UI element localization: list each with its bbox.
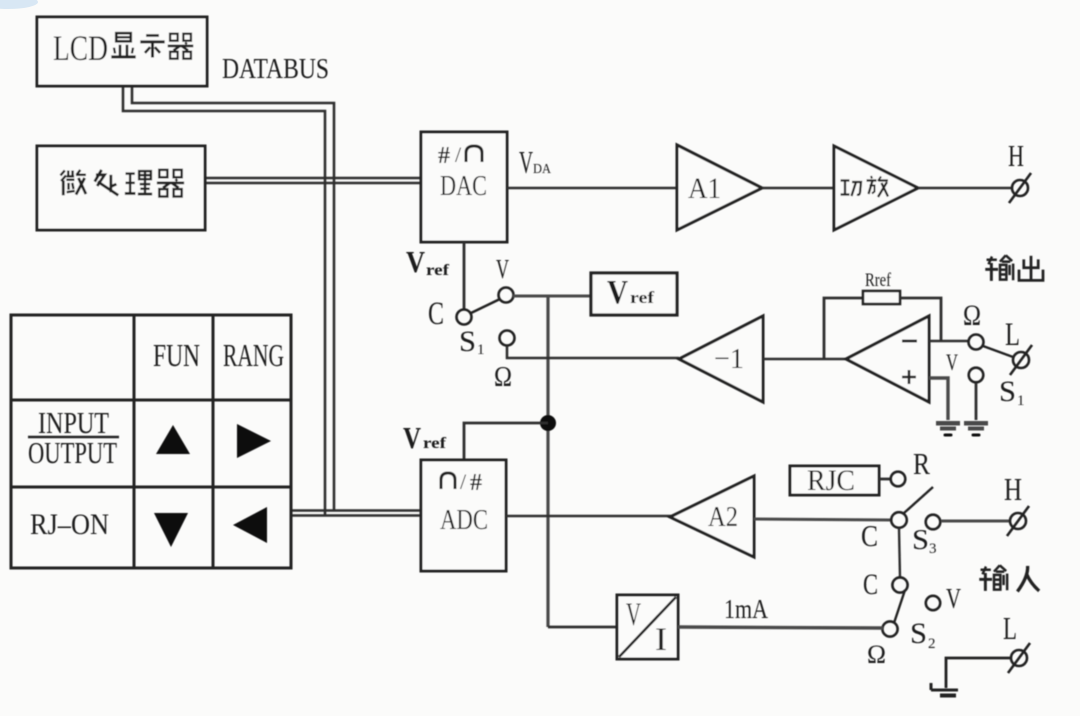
svg-text:RJ–ON: RJ–ON	[30, 508, 109, 541]
amplifier A2	[670, 476, 754, 557]
svg-text:V: V	[626, 597, 641, 633]
svg-text:RANG: RANG	[223, 337, 284, 373]
svg-text:L: L	[1003, 610, 1017, 646]
wire L input to ground	[946, 658, 1010, 688]
switch S2 contact V	[926, 596, 940, 610]
svg-text:C: C	[428, 296, 444, 332]
svg-text:ADC: ADC	[440, 504, 488, 536]
svg-text:H: H	[1008, 138, 1024, 173]
svg-text:Ω: Ω	[963, 299, 981, 332]
wire: keypad to ADC double line	[291, 509, 421, 512]
wire junction to ADC	[464, 423, 548, 460]
svg-text:S: S	[459, 325, 476, 358]
svg-text:#: #	[438, 143, 450, 169]
ground at op-amp +	[936, 421, 960, 437]
svg-text:2: 2	[928, 636, 936, 652]
svg-text:S: S	[912, 524, 929, 556]
amplifier 功放 (power amp)	[834, 146, 918, 230]
svg-text:V: V	[607, 274, 628, 311]
label 输入 (input)	[979, 565, 1007, 591]
svg-text:S: S	[999, 375, 1016, 408]
svg-text:Rref: Rref	[865, 270, 892, 291]
wire ADC to A2	[506, 515, 672, 518]
amplifier -1	[679, 316, 763, 402]
switch S1 contact Ω	[500, 331, 515, 346]
svg-text:C: C	[863, 568, 878, 601]
svg-text:DA: DA	[533, 162, 552, 177]
svg-text:I: I	[655, 622, 667, 658]
key arrow left	[233, 507, 267, 543]
wire op-amp inverting input	[929, 340, 968, 343]
contact R	[891, 472, 906, 487]
box microprocessor	[37, 146, 205, 230]
wire: LCD databus double line	[132, 86, 334, 511]
wire S3 to terminal H input	[941, 520, 1011, 523]
svg-text:/: /	[455, 142, 462, 167]
svg-text:Ω: Ω	[494, 362, 512, 393]
feedback wire right	[900, 298, 941, 340]
svg-text:1: 1	[477, 342, 485, 358]
wire Ω contact to -1 amp	[507, 346, 679, 358]
switch S1 output: contact Ω	[969, 335, 984, 350]
switch S2 blade	[894, 590, 905, 623]
svg-text:V: V	[403, 420, 421, 455]
ground at V contact	[964, 421, 988, 437]
wire A2 to switch S3	[754, 519, 892, 520]
svg-text:C: C	[861, 518, 878, 553]
svg-text:L: L	[1005, 317, 1020, 353]
svg-text:1mA: 1mA	[724, 594, 768, 624]
wire V contact to Vref box	[513, 295, 591, 298]
wire V contact down to ground	[975, 383, 978, 420]
svg-text:RJC: RJC	[807, 464, 855, 497]
wire -1 to op-amp output	[763, 358, 846, 361]
ground (input low)	[931, 683, 958, 696]
svg-text:ref: ref	[423, 435, 447, 452]
key arrow up	[156, 425, 190, 454]
svg-text:R: R	[913, 446, 930, 481]
switch S1 contact V	[499, 288, 514, 303]
box LCD display	[37, 17, 207, 86]
svg-text:DATABUS: DATABUS	[222, 54, 329, 85]
svg-text:V: V	[519, 144, 533, 180]
switch S1 blade	[471, 299, 500, 313]
V/I converter box	[617, 595, 678, 659]
terminal L (input low)	[1008, 643, 1030, 673]
switch S3 common contact C	[891, 512, 907, 528]
svg-text:Ω: Ω	[867, 640, 886, 669]
switch S1 output: contact V	[969, 368, 984, 383]
switch S3 right contact	[926, 515, 941, 530]
vertical bus wire	[546, 296, 549, 627]
svg-text:FUN: FUN	[153, 337, 200, 373]
svg-text:#: #	[470, 470, 482, 496]
svg-text:−1: −1	[714, 343, 744, 375]
op-amp U1	[846, 316, 929, 402]
svg-text:ref: ref	[630, 288, 654, 307]
svg-text:V: V	[946, 584, 961, 615]
wire S3 C to S2 C	[899, 528, 900, 578]
switch S3 blade	[904, 487, 933, 513]
switch S2 contact Ω	[882, 621, 897, 636]
terminal H (output high)	[1009, 173, 1031, 203]
Vref box	[591, 273, 677, 315]
wire DAC down to switch S1	[463, 242, 466, 309]
key arrow right	[237, 424, 271, 458]
wire A1 to PA	[762, 187, 834, 190]
wire: microprocessor to DAC double line	[205, 177, 421, 179]
wire RJC to contact R	[879, 478, 891, 481]
svg-text:3: 3	[929, 541, 937, 557]
terminal H (input high)	[1007, 506, 1029, 536]
svg-text:LCD: LCD	[53, 28, 108, 68]
junction node	[540, 415, 556, 431]
svg-text:V: V	[406, 244, 426, 279]
key arrow down	[154, 513, 188, 547]
keypad matrix	[11, 315, 291, 568]
resistor Rref	[863, 291, 900, 304]
amplifier A1	[677, 145, 762, 230]
DAC box	[421, 132, 507, 242]
scan artifact smudge	[0, 0, 38, 9]
svg-text:DAC: DAC	[440, 170, 487, 202]
svg-text:S: S	[910, 617, 927, 650]
wire op-amp + input to ground	[929, 378, 948, 420]
svg-text:A1: A1	[688, 172, 721, 205]
feedback wire left	[824, 298, 863, 359]
switch S1 (reference select): contact C	[457, 310, 472, 325]
svg-text:ref: ref	[426, 262, 450, 279]
ADC box	[421, 460, 506, 571]
svg-text:OUTPUT: OUTPUT	[28, 435, 117, 470]
RJC box	[790, 466, 879, 495]
svg-text:H: H	[1004, 471, 1022, 507]
svg-text:/: /	[460, 469, 467, 494]
svg-text:1: 1	[1017, 393, 1025, 409]
svg-text:V: V	[946, 350, 958, 375]
wire bus to V/I	[548, 626, 617, 629]
wire V/I to S2 Ω (1mA)	[678, 627, 883, 628]
terminal L (output low)	[1010, 345, 1032, 375]
svg-text:V: V	[496, 254, 509, 284]
switch S2 common contact C	[892, 577, 907, 592]
label 输出 (output)	[985, 255, 1013, 281]
svg-text:A2: A2	[708, 501, 738, 533]
wire PA to terminal H	[918, 187, 1012, 190]
wire DAC to A1	[507, 187, 677, 190]
switch S1 output blade	[983, 346, 1013, 357]
